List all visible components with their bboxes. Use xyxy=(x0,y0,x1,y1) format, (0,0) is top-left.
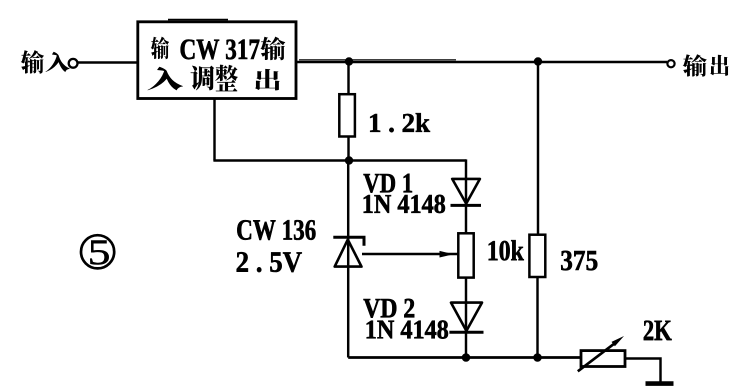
pin label: 调 (adjust) xyxy=(191,66,215,91)
label: VD2 xyxy=(364,299,415,318)
regulator U1 CW317 body xyxy=(138,22,296,99)
diode VD2 1N4148 xyxy=(451,303,482,331)
label: 输 of 输入 input xyxy=(21,50,44,74)
wire: U2 CW136 vertical through xyxy=(347,161,349,358)
shunt reference U2 CW136 anode triangle xyxy=(335,240,362,267)
rheostat RP 2K body xyxy=(581,351,625,367)
wire: output rail xyxy=(296,61,667,63)
label: 2K xyxy=(644,321,672,341)
figure number node: circled 5 xyxy=(81,235,114,268)
junction: bottom rail / R3 xyxy=(533,353,542,362)
diode VD1 cathode bar xyxy=(451,204,482,207)
wire: adjust rail xyxy=(213,159,466,161)
wire: R1 bottom lead xyxy=(347,137,349,161)
ground xyxy=(646,381,674,386)
wire: input lead xyxy=(78,61,138,63)
label: 10k xyxy=(489,240,524,260)
label: 1N 4148 (VD1) xyxy=(364,195,445,213)
pin label: 输 (row1 right, output pin) xyxy=(260,37,285,61)
junction: bottom rail / VD2 xyxy=(462,353,471,362)
arrowhead: reference into R2 xyxy=(440,251,454,258)
pin label: 出 (row2 right) xyxy=(255,69,280,91)
wire: U2 reference to R2 xyxy=(362,253,458,255)
wire: RP to ground xyxy=(625,359,661,382)
label: 5 xyxy=(90,241,108,265)
wire: scan artifact above output rail xyxy=(299,59,456,61)
wire: R3 branch from output rail xyxy=(537,62,539,235)
label: 1.2k xyxy=(370,113,430,132)
junction: adjust rail / R1 / U2 xyxy=(345,156,353,164)
node: output terminal xyxy=(667,60,674,67)
resistor R1 1.2k xyxy=(339,94,355,136)
pin label: 输 (row1 left, input pin) xyxy=(151,37,169,60)
wire: bottom rail xyxy=(348,356,581,359)
label: 入 of 输入 input xyxy=(45,52,69,72)
label: 1N 4148 (VD2) xyxy=(367,320,448,338)
shunt reference U2 CW136 cathode bar xyxy=(333,237,364,245)
pin label: 整 (adjust) xyxy=(215,65,238,92)
node: input terminal xyxy=(69,59,78,68)
resistor R2 10k xyxy=(458,233,473,277)
rheostat RP arrow xyxy=(578,342,616,371)
wire: R3 bottom lead xyxy=(536,277,538,358)
label: CW 136 xyxy=(237,220,315,240)
wire: R2 through VD2 to bottom rail xyxy=(465,278,467,358)
junction: output rail / R1 xyxy=(345,57,353,65)
wire: adjust pin down from U1 xyxy=(213,99,215,161)
label: 2.5V xyxy=(237,252,302,272)
wire: adjust rail corner down through VD1 to R2 xyxy=(465,159,467,233)
wire: R1 top lead xyxy=(347,62,349,94)
label: CW 317 xyxy=(181,40,260,60)
label: 出 of 输出 output xyxy=(710,55,728,76)
diode VD1 1N4148 xyxy=(452,179,480,204)
label: VD1 xyxy=(364,174,413,193)
pin label: 入 (row2 left) xyxy=(147,67,183,91)
rheostat RP arrowhead xyxy=(612,336,625,346)
junction: output rail / R3 branch xyxy=(534,57,542,65)
diode VD2 cathode bar xyxy=(449,331,483,334)
wire: scan artifact above U1 top border xyxy=(168,19,228,21)
label: 输 of 输出 output xyxy=(683,54,707,77)
resistor R3 375 xyxy=(529,235,545,277)
label: 375 xyxy=(561,251,597,270)
